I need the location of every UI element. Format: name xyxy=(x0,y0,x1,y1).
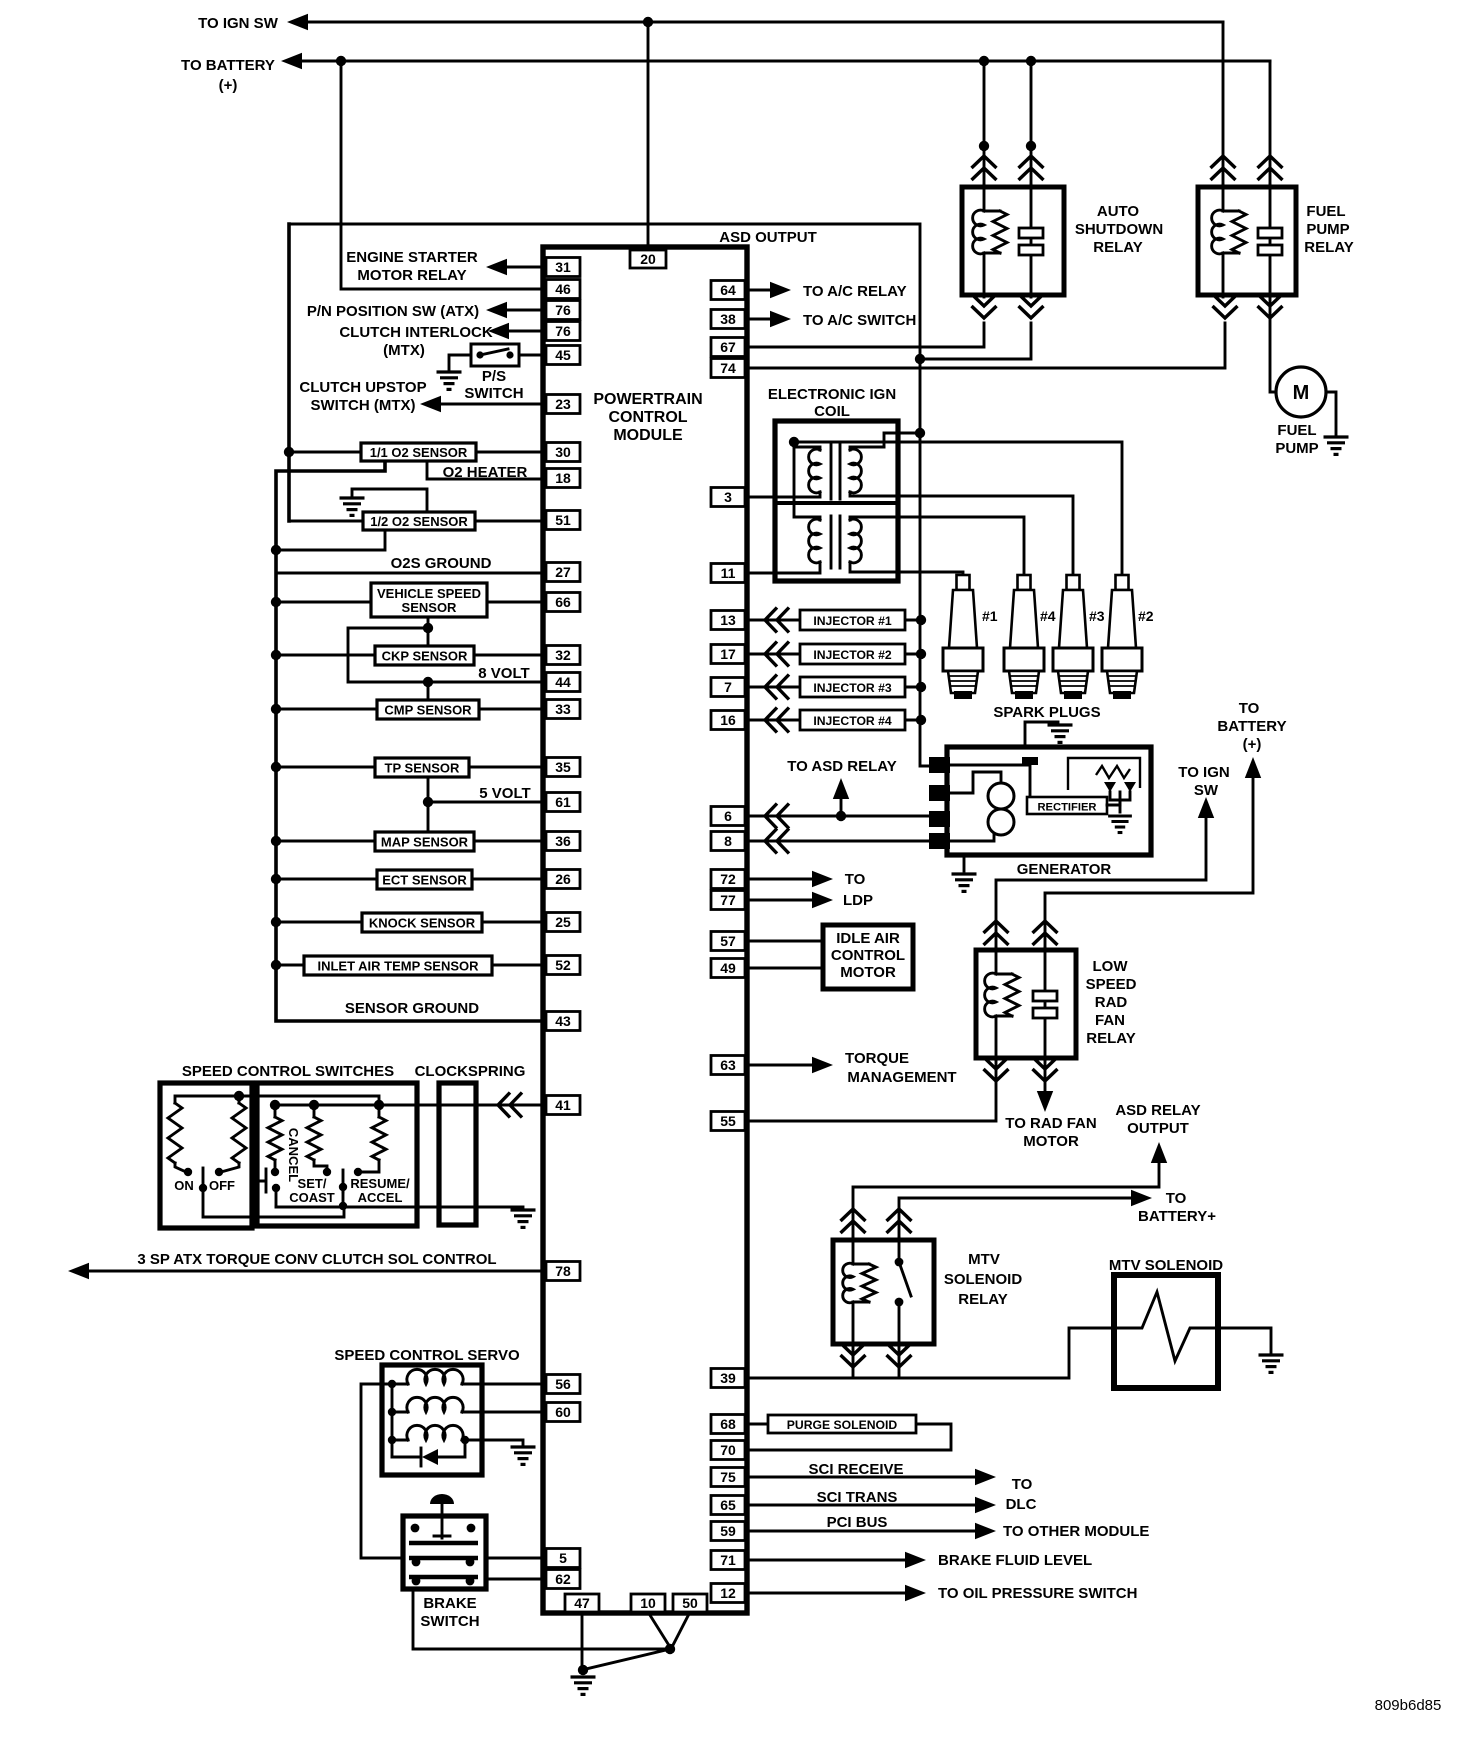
PCM pin 70 (right, y=1450) xyxy=(711,1441,745,1460)
wire ckp left xyxy=(276,654,375,657)
servo diode xyxy=(392,1440,465,1457)
PCM pin 77 (right, y=900) xyxy=(711,891,745,910)
wire inj #3 right xyxy=(905,686,921,689)
wire pin41 wire xyxy=(379,1104,543,1107)
diode pack xyxy=(1107,792,1120,805)
wire p/s left to ground xyxy=(449,355,471,369)
svg-text:ACCEL: ACCEL xyxy=(358,1190,403,1205)
connector chevron asd coil conn xyxy=(972,156,997,180)
resistor ON xyxy=(175,1096,239,1103)
junction bus cmp xyxy=(271,704,281,714)
svg-text:27: 27 xyxy=(555,564,571,580)
wire pin inj #1 left xyxy=(747,619,800,622)
svg-text:78: 78 xyxy=(555,1263,571,1279)
wire pin50 diag xyxy=(672,1612,690,1647)
connector chevron fp coil bot conn xyxy=(1213,294,1238,318)
ground p/s switch ground xyxy=(437,372,462,389)
wire pin74 wire xyxy=(747,323,1225,368)
junction set contact xyxy=(323,1168,331,1176)
junction bus inj #3 xyxy=(916,682,926,692)
junction off contact xyxy=(215,1168,223,1176)
relay AUTO SHUTDOWN RELAY xyxy=(962,187,1064,295)
arrow to a/c relay xyxy=(770,282,791,298)
svg-text:FUEL: FUEL xyxy=(1306,203,1345,220)
wire 5v line pin61 xyxy=(428,801,543,804)
resistor OFF xyxy=(238,1096,241,1103)
wire tp 5v drop xyxy=(427,777,430,802)
svg-text:MOTOR RELAY: MOTOR RELAY xyxy=(357,267,466,284)
wire sensor bus xyxy=(276,461,543,1021)
svg-text:SWITCH: SWITCH xyxy=(464,385,523,402)
relay MTV solenoid relay contact xyxy=(898,1238,901,1346)
connector chevron mtv contact bottom conn xyxy=(887,1343,912,1367)
PCM pin 76 (left, y=310) xyxy=(546,301,580,320)
svg-text:GENERATOR: GENERATOR xyxy=(1017,861,1112,878)
PCM pin 26 (left, y=879) xyxy=(546,870,580,889)
svg-text:SPEED: SPEED xyxy=(1086,976,1137,993)
svg-text:SCI TRANS: SCI TRANS xyxy=(817,1489,898,1506)
svg-text:77: 77 xyxy=(720,892,736,908)
relay AUTO SHUTDOWN RELAY coil xyxy=(983,185,986,211)
junction bus map xyxy=(271,836,281,846)
svg-text:CANCEL: CANCEL xyxy=(286,1128,301,1182)
svg-text:20: 20 xyxy=(640,251,656,267)
svg-text:7: 7 xyxy=(724,679,732,695)
wire pin12 wire xyxy=(747,1592,906,1595)
PCM pin 61 (left, y=802) xyxy=(546,793,580,812)
wire servo gnd xyxy=(465,1440,523,1444)
PCM pin 33 (left, y=709) xyxy=(546,700,580,719)
relay AUTO SHUTDOWN RELAY coil resistor xyxy=(984,211,1000,253)
arrow to rad fan motor xyxy=(1037,1091,1053,1112)
PCM pin 62 (left, y=1579) xyxy=(546,1570,580,1589)
relay FUEL PUMP RELAY coil resistor xyxy=(1223,211,1239,253)
svg-text:66: 66 xyxy=(555,594,571,610)
svg-text:63: 63 xyxy=(720,1057,736,1073)
junction splice asd contact xyxy=(1026,141,1036,151)
servo internal bus xyxy=(391,1384,394,1457)
wire servo-brake link xyxy=(361,1384,403,1558)
svg-text:41: 41 xyxy=(555,1097,571,1113)
ground generator ground xyxy=(952,874,977,891)
svg-text:PUMP: PUMP xyxy=(1306,221,1349,238)
svg-text:MOTOR: MOTOR xyxy=(1023,1133,1079,1150)
wire knock left xyxy=(276,921,362,924)
PCM pin 50 (bottom) xyxy=(673,1594,707,1612)
PCM pin 31 (left, y=267) xyxy=(546,258,580,277)
wire ASD output loop y=224 xyxy=(289,224,920,359)
PCM pin 45 (left, y=355) xyxy=(546,346,580,365)
arrow to ldp a xyxy=(812,871,833,887)
svg-text:PUMP: PUMP xyxy=(1275,440,1318,457)
wire pin67 wire xyxy=(747,323,984,347)
svg-text:47: 47 xyxy=(574,1595,590,1611)
junction resume contact xyxy=(354,1168,362,1176)
wire 1/2 o2 right to pin51 xyxy=(475,520,543,523)
svg-text:8 VOLT: 8 VOLT xyxy=(478,665,529,682)
junction bus knock xyxy=(271,917,281,927)
relay MTV solenoid relay coil resistor xyxy=(853,1264,869,1302)
svg-text:RESUME/: RESUME/ xyxy=(350,1176,410,1191)
wire inj #4 right xyxy=(905,719,921,722)
svg-text:36: 36 xyxy=(555,833,571,849)
svg-text:COAST: COAST xyxy=(289,1190,335,1205)
wire junction-to-ground diag xyxy=(586,1649,670,1669)
svg-text:SET/: SET/ xyxy=(298,1176,327,1191)
PCM pin 55 (right, y=1121) xyxy=(711,1112,745,1131)
svg-text:59: 59 xyxy=(720,1523,736,1539)
wire pin71 wire xyxy=(747,1559,906,1562)
ground servo ground xyxy=(511,1447,536,1464)
PCM pin 44 (left, y=682) xyxy=(546,673,580,692)
PCM pin 60 (left, y=1412) xyxy=(546,1403,580,1422)
wire pin78 wire xyxy=(86,1270,543,1273)
PCM pin 75 (right, y=1477) xyxy=(711,1468,745,1487)
svg-text:RECTIFIER: RECTIFIER xyxy=(1037,802,1096,814)
brake contact bars xyxy=(409,1543,478,1577)
junction 8v ckp-cmp tap xyxy=(423,677,433,687)
svg-text:SWITCH: SWITCH xyxy=(420,1613,479,1630)
rectifier box xyxy=(1027,797,1107,814)
svg-text:LDP: LDP xyxy=(843,892,873,909)
wire pin59 wire xyxy=(747,1530,976,1533)
svg-text:COIL: COIL xyxy=(814,403,850,420)
svg-text:5: 5 xyxy=(559,1550,567,1566)
svg-text:TO ASD RELAY: TO ASD RELAY xyxy=(787,758,896,775)
wire pin57 wire xyxy=(747,940,823,943)
junction asd coil top tap xyxy=(979,56,989,66)
junction 5v tap xyxy=(423,797,433,807)
svg-text:ELECTRONIC IGN: ELECTRONIC IGN xyxy=(768,386,896,403)
ground speed control ground xyxy=(511,1210,536,1227)
junction splice asd coil xyxy=(979,141,989,151)
wire map 5v drop xyxy=(427,802,430,832)
junction resume top xyxy=(374,1100,384,1110)
svg-text:50: 50 xyxy=(682,1595,698,1611)
svg-text:30: 30 xyxy=(555,444,571,460)
wire vss right pin66 xyxy=(487,601,543,604)
svg-text:M: M xyxy=(1293,382,1310,404)
1/1 O2 sensor box xyxy=(361,443,476,461)
wire pin77 wire xyxy=(747,899,813,902)
wire asd relay coil supply x=984 xyxy=(983,61,986,189)
arrow to ign sw xyxy=(287,14,308,30)
wire pin inj #2 left xyxy=(747,653,800,656)
wire 1/2 heater gnd wire xyxy=(352,489,427,512)
PCM pin 56 (left, y=1384) xyxy=(546,1375,580,1394)
wire 8v loop xyxy=(348,628,543,682)
svg-text:CLOCKSPRING: CLOCKSPRING xyxy=(415,1063,526,1080)
arrow to ign sw (right) xyxy=(1198,797,1214,818)
wire pin55 wire xyxy=(747,1060,996,1121)
generator internals xyxy=(950,765,1030,797)
svg-text:CMP SENSOR: CMP SENSOR xyxy=(384,703,472,718)
svg-text:68: 68 xyxy=(720,1416,736,1432)
PCM pin 5 (left, y=1558) xyxy=(546,1549,580,1568)
brake switch xyxy=(403,1516,486,1589)
svg-text:CKP SENSOR: CKP SENSOR xyxy=(382,649,468,664)
wire pin64 wire xyxy=(747,289,771,292)
wire radfan contact top xyxy=(1045,776,1253,948)
junction bus inj #2 xyxy=(916,649,926,659)
wire pin68 wire xyxy=(747,1423,768,1426)
wire pin31 xyxy=(504,266,543,269)
svg-text:PURGE SOLENOID: PURGE SOLENOID xyxy=(787,1418,898,1432)
PCM pin 23 (left, y=404) xyxy=(546,395,580,414)
svg-text:TO: TO xyxy=(1012,1476,1033,1493)
junction bus tp xyxy=(271,762,281,772)
motor FUEL PUMP xyxy=(1276,367,1326,417)
svg-text:SOLENOID: SOLENOID xyxy=(944,1271,1023,1288)
svg-text:13: 13 xyxy=(720,612,736,628)
wire o2s ground to pin27 xyxy=(276,572,543,575)
svg-text:SPEED CONTROL SWITCHES: SPEED CONTROL SWITCHES xyxy=(182,1063,394,1080)
PCM pin 12 (right, y=1593) xyxy=(711,1584,745,1603)
generator terminals xyxy=(929,757,950,773)
svg-text:45: 45 xyxy=(555,347,571,363)
PCM pin 43 (left, y=1021) xyxy=(546,1012,580,1031)
svg-text:BRAKE: BRAKE xyxy=(423,1595,476,1612)
arrow engine starter xyxy=(486,259,507,275)
svg-text:TO A/C SWITCH: TO A/C SWITCH xyxy=(803,312,916,329)
PCM pin 68 (right, y=1424) xyxy=(711,1415,745,1434)
wire 1/2 o2 to sensor bus xyxy=(276,530,385,550)
svg-text:35: 35 xyxy=(555,759,571,775)
relay FUEL PUMP RELAY contact xyxy=(1269,185,1272,297)
svg-text:CLUTCH UPSTOP: CLUTCH UPSTOP xyxy=(299,379,426,396)
svg-text:39: 39 xyxy=(720,1370,736,1386)
PCM pin 49 (right, y=968) xyxy=(711,959,745,978)
svg-text:INLET AIR TEMP SENSOR: INLET AIR TEMP SENSOR xyxy=(317,959,479,974)
svg-text:55: 55 xyxy=(720,1113,736,1129)
svg-text:26: 26 xyxy=(555,871,571,887)
wire ignition switch feed, y=22 xyxy=(305,21,1223,24)
svg-text:64: 64 xyxy=(720,282,736,298)
wire purge loop xyxy=(747,1424,951,1450)
junction servo bus1 xyxy=(388,1380,396,1388)
svg-text:11: 11 xyxy=(721,565,736,581)
arrow sci trans xyxy=(975,1497,996,1513)
svg-text:TO BATTERY: TO BATTERY xyxy=(181,57,275,74)
wire inj #1 right xyxy=(905,619,921,622)
svg-text:3 SP ATX TORQUE CONV CLUTCH SO: 3 SP ATX TORQUE CONV CLUTCH SOL CONTROL xyxy=(137,1251,496,1268)
svg-text:ON: ON xyxy=(174,1178,194,1193)
arrow clutch interlock xyxy=(488,323,509,339)
arrow to ldp b xyxy=(812,892,833,908)
arrow oil pressure xyxy=(905,1585,926,1601)
svg-text:INJECTOR #4: INJECTOR #4 xyxy=(813,714,892,728)
PCM pin 38 (right, y=319) xyxy=(711,310,745,329)
svg-text:12: 12 xyxy=(720,1585,736,1601)
ground generator top ground xyxy=(1048,725,1073,742)
servo coil 3 xyxy=(392,1439,408,1442)
junction coil secondary node xyxy=(789,437,799,447)
svg-text:LOW: LOW xyxy=(1093,958,1129,975)
junction servo coil3 out xyxy=(461,1436,469,1444)
connector chevron radfan contact bot conn xyxy=(1033,1057,1058,1081)
wire p/s to pin45 xyxy=(519,354,543,357)
relay LOW SPEED RAD FAN RELAY xyxy=(976,950,1076,1058)
junction asd contact tap xyxy=(915,354,925,364)
arrow brake fluid level xyxy=(905,1552,926,1568)
junction brake c2a xyxy=(412,1577,421,1586)
relay FUEL PUMP RELAY coil xyxy=(1222,185,1225,211)
wire pin10 diag xyxy=(648,1612,670,1647)
wire ps lever xyxy=(480,349,508,355)
wire pin11 wire xyxy=(747,572,775,575)
connector chevron asd coil bot conn xyxy=(972,294,997,318)
CMP sensor box xyxy=(377,700,479,719)
PCM pin 3 (right, y=497) xyxy=(711,488,745,507)
junction bus inj #4 xyxy=(916,715,926,725)
injector #4 box xyxy=(800,710,905,730)
svg-text:FAN: FAN xyxy=(1095,1012,1125,1029)
svg-text:57: 57 xyxy=(720,933,736,949)
PCM pin 10 (bottom) xyxy=(631,1594,665,1612)
wire pin76b xyxy=(506,330,543,333)
arrow to asd relay xyxy=(833,778,849,799)
wire asd contact bottom xyxy=(920,323,1031,359)
wire cmp 8v drop xyxy=(427,682,430,701)
svg-text:TO OIL PRESSURE SWITCH: TO OIL PRESSURE SWITCH xyxy=(938,1585,1137,1602)
PCM pin 65 (right, y=1505) xyxy=(711,1496,745,1515)
connector chevron radfan coil bot conn xyxy=(984,1057,1009,1081)
svg-text:TO A/C RELAY: TO A/C RELAY xyxy=(803,283,907,300)
junction mtv contact bottom xyxy=(895,1298,904,1307)
svg-text:31: 31 xyxy=(555,259,571,275)
arrow p/n position xyxy=(486,302,507,318)
PCM pin 41 (left, y=1105) xyxy=(546,1096,580,1115)
svg-text:FUEL: FUEL xyxy=(1277,422,1316,439)
junction 8v top tap xyxy=(423,623,433,633)
PCM pin 63 (right, y=1065) xyxy=(711,1056,745,1075)
junction o2 heater bus tap xyxy=(284,447,294,457)
ground fuel pump ground xyxy=(1324,437,1349,454)
wire asd out bus xyxy=(920,359,930,766)
wire pin8 wire xyxy=(747,840,930,843)
svg-text:INJECTOR #1: INJECTOR #1 xyxy=(813,614,892,628)
junction bottom junction xyxy=(665,1644,675,1654)
wire plug3 wire W3 xyxy=(898,496,1073,575)
connector chevron mtv coil bottom conn xyxy=(841,1343,866,1367)
relay LOW SPEED RAD FAN RELAY contact xyxy=(1044,948,1047,1060)
PCM pin 72 (right, y=879) xyxy=(711,870,745,889)
connector chevron fp coil conn xyxy=(1211,156,1236,180)
wire iat right pin52 xyxy=(492,964,543,967)
wire map right pin36 xyxy=(474,840,543,843)
svg-text:OFF: OFF xyxy=(209,1178,235,1193)
svg-text:49: 49 xyxy=(720,960,736,976)
svg-text:1/1 O2 SENSOR: 1/1 O2 SENSOR xyxy=(370,445,468,460)
wire 1/1 o2 right to pin30 xyxy=(476,451,543,454)
connector chevron asd contact conn xyxy=(1019,156,1044,180)
wire pin3 wire xyxy=(747,496,775,499)
svg-text:TO OTHER MODULE: TO OTHER MODULE xyxy=(1003,1523,1149,1540)
wire brake gnd run xyxy=(413,1589,670,1649)
svg-text:POWERTRAIN: POWERTRAIN xyxy=(593,391,702,408)
svg-text:BRAKE FLUID LEVEL: BRAKE FLUID LEVEL xyxy=(938,1552,1092,1569)
transformer 1 (top) xyxy=(794,442,820,450)
arrow sci receive xyxy=(975,1469,996,1485)
svg-text:CLUTCH INTERLOCK: CLUTCH INTERLOCK xyxy=(339,324,492,341)
wire mtv contact to battery xyxy=(899,1198,1131,1240)
svg-text:70: 70 xyxy=(720,1442,736,1458)
PCM pin 36 (left, y=841) xyxy=(546,832,580,851)
svg-text:TORQUE: TORQUE xyxy=(845,1050,909,1067)
wire map left xyxy=(276,840,375,843)
knock sensor box xyxy=(362,913,482,932)
junction servo bus2 xyxy=(388,1408,396,1416)
generator rotor xyxy=(988,783,1014,809)
wire pin23 xyxy=(438,403,543,406)
svg-text:RELAY: RELAY xyxy=(958,1291,1007,1308)
1/2 O2 sensor box xyxy=(363,512,475,530)
svg-text:72: 72 xyxy=(720,871,736,887)
wire o2 heater wire to pin18 xyxy=(427,461,543,479)
svg-text:65: 65 xyxy=(720,1497,736,1513)
junction brake c2b xyxy=(466,1577,475,1586)
svg-text:MAP SENSOR: MAP SENSOR xyxy=(381,835,469,850)
PCM pin 20 (top) xyxy=(630,250,666,268)
wire common bus y=1207 xyxy=(276,1206,523,1209)
junction set-bus junction xyxy=(339,1202,347,1210)
junction on/off top xyxy=(234,1091,244,1101)
wire tp right pin35 xyxy=(469,766,543,769)
junction asd relay tap on pin6 xyxy=(836,811,846,821)
MAP sensor box xyxy=(375,832,474,851)
svg-text:ENGINE STARTER: ENGINE STARTER xyxy=(346,249,478,266)
connector chevron radfan contact top conn xyxy=(1033,921,1058,945)
wire brake to pin5 xyxy=(486,1557,543,1560)
svg-text:TO: TO xyxy=(1239,700,1260,717)
PCM pin 59 (right, y=1531) xyxy=(711,1522,745,1541)
resistor RESUME/ACCEL xyxy=(378,1105,381,1117)
wire pin76a xyxy=(504,309,543,312)
svg-text:SPEED CONTROL SERVO: SPEED CONTROL SERVO xyxy=(334,1347,520,1364)
arrow to battery+ xyxy=(1131,1190,1152,1206)
PCM pin 66 (left, y=602) xyxy=(546,593,580,612)
svg-text:TO RAD FAN: TO RAD FAN xyxy=(1005,1115,1096,1132)
svg-text:44: 44 xyxy=(555,674,571,690)
svg-text:25: 25 xyxy=(555,914,571,930)
connector chevron inj #2 conn xyxy=(765,642,789,667)
wire fuel pump relay coil supply x=1223 xyxy=(1222,22,1225,189)
svg-text:KNOCK SENSOR: KNOCK SENSOR xyxy=(369,916,476,931)
PCM pin 7 (right, y=687) xyxy=(711,678,745,697)
svg-text:O2 HEATER: O2 HEATER xyxy=(443,464,528,481)
PCM pin 46 (left, y=289) xyxy=(546,280,580,299)
P/S switch box xyxy=(471,344,519,366)
wire battery feed, y=61 xyxy=(299,60,1270,63)
svg-text:TO IGN SW: TO IGN SW xyxy=(198,15,279,32)
svg-text:MODULE: MODULE xyxy=(613,427,683,444)
wire pin72 wire xyxy=(747,878,813,881)
wire servo coil1 to pin56 xyxy=(465,1383,543,1386)
arrow tcc sol control xyxy=(68,1263,89,1279)
wire plug2 wire xyxy=(794,442,1122,575)
svg-text:1/2 O2 SENSOR: 1/2 O2 SENSOR xyxy=(370,514,468,529)
connector chevron inj #3 conn xyxy=(765,675,789,700)
wire pin inj #3 left xyxy=(747,686,800,689)
junction bus ect xyxy=(271,874,281,884)
svg-text:MTV: MTV xyxy=(968,1251,1000,1268)
wire fp contact to pump xyxy=(1270,295,1276,392)
spark plug #3 xyxy=(1053,575,1093,693)
arrow torque mgmt xyxy=(812,1057,833,1073)
PCM pin 27 (left, y=572) xyxy=(546,563,580,582)
inlet air temp sensor box xyxy=(304,956,492,975)
svg-text:#2: #2 xyxy=(1138,608,1154,624)
